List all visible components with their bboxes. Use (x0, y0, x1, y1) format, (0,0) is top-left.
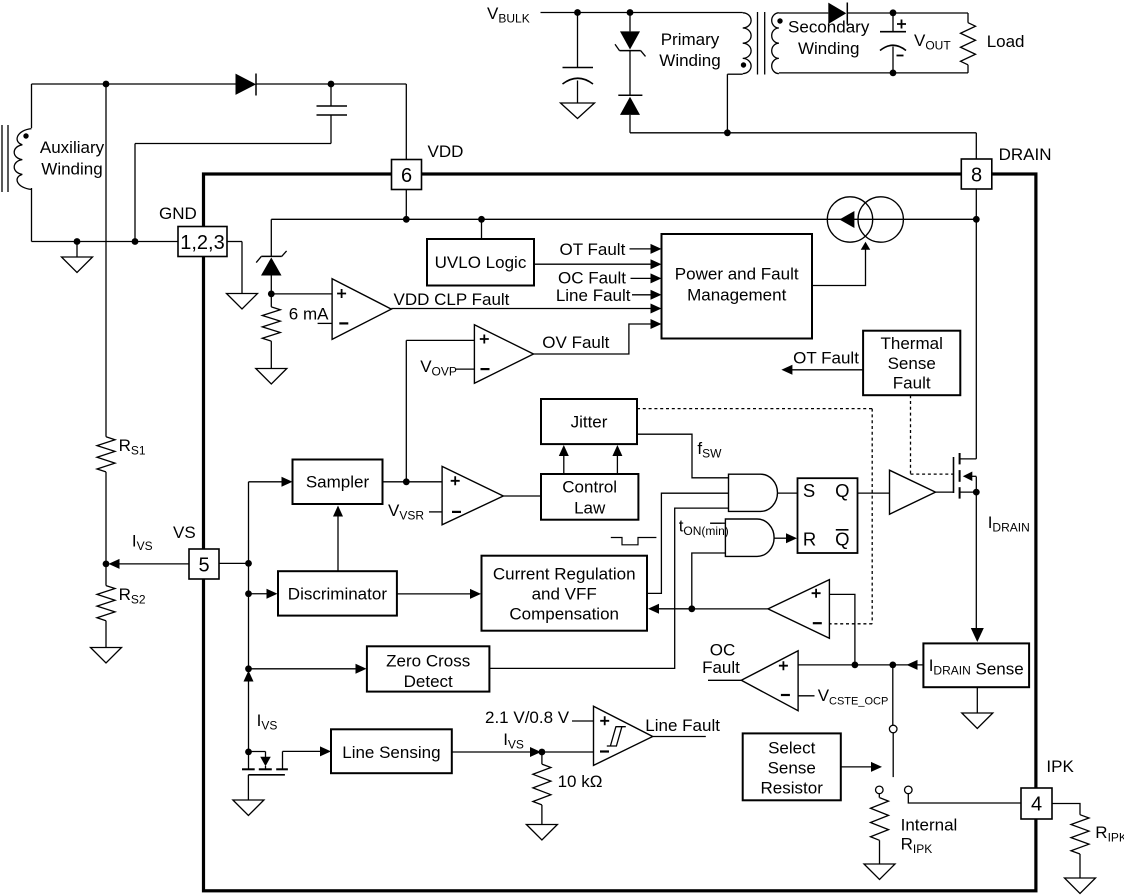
block I-DRAIN Sense (923, 643, 1029, 687)
svg-text:Internal: Internal (901, 816, 958, 835)
label V-BULK (487, 4, 530, 26)
svg-text:Q: Q (835, 528, 849, 549)
capacitor C-VDD (317, 106, 348, 115)
node bulk-cap junction (574, 9, 581, 16)
label GND (159, 204, 197, 223)
wire OC minus stub (798, 695, 814, 697)
wire DRAIN vertical (975, 189, 977, 632)
svg-text:5: 5 (198, 555, 209, 577)
wire secondary top to output diode (779, 12, 828, 14)
ground symbol (10k resistor) (526, 825, 557, 841)
wire OC plus input (798, 660, 923, 670)
auxiliary winding polarity dot (23, 133, 28, 138)
svg-text:Sense: Sense (888, 354, 936, 373)
diode D1 (VDD rectifier) (236, 74, 256, 96)
capacitor C-BULK (563, 13, 594, 104)
wire UVLO output to PFM (534, 263, 652, 265)
zener diode (VDD clamp) (256, 219, 286, 294)
svg-text:Law: Law (574, 499, 606, 518)
svg-text:VDD CLP Fault: VDD CLP Fault (394, 290, 510, 309)
wire PWM output to current regulation (648, 604, 768, 614)
block Power and Fault Management (662, 234, 813, 339)
wire VS node to discriminator (249, 589, 278, 599)
wire OC output stub (708, 679, 741, 681)
label I-VS (line sense out) (503, 730, 524, 752)
label R-S1 (119, 436, 146, 458)
svg-text:OV Fault: OV Fault (542, 333, 609, 352)
svg-text:6 mA: 6 mA (289, 305, 329, 324)
label Primary Winding (659, 30, 720, 70)
block Discriminator (278, 571, 397, 615)
svg-text:IPK: IPK (1046, 757, 1074, 776)
wire sampler node to OVP+ input (406, 340, 474, 481)
wire V-OVP stub (455, 368, 474, 370)
wire CLP- input stub (318, 322, 333, 324)
wire driver to gate (936, 491, 954, 493)
label VDD CLP Fault (394, 290, 510, 309)
svg-text:Jitter: Jitter (571, 413, 608, 432)
comparator U-LINE (hysteresis) (594, 706, 653, 765)
pin box 6 (VDD) (392, 160, 422, 190)
ground symbol (bulk cap) (561, 103, 595, 119)
power MOSFET Q1 (954, 453, 977, 499)
svg-text:and VFF: and VFF (532, 585, 597, 604)
svg-text:Winding: Winding (798, 39, 859, 58)
transformer core (758, 12, 765, 75)
svg-text:S: S (803, 480, 815, 501)
svg-text:DRAIN: DRAIN (999, 145, 1052, 164)
wire IPK pin to external resistor (1052, 804, 1080, 815)
wire Line Fault output (653, 736, 706, 738)
label Auxiliary Winding (40, 138, 105, 179)
wire VDD CLP Fault output (391, 308, 651, 310)
wire VS pin to divider (109, 559, 190, 569)
svg-text:8: 8 (971, 165, 982, 187)
node PWM-AND2 junction (688, 605, 695, 612)
wire current regulation to AND1 (647, 493, 729, 593)
node bulk-TVS junction (627, 9, 634, 16)
AND gate G1 (729, 474, 778, 511)
wire JFET to Line Sensing arrow (320, 746, 331, 756)
wire VS pin to internal node (219, 562, 249, 564)
svg-text:Winding: Winding (41, 160, 102, 179)
wire discriminator to current regulation (397, 589, 481, 599)
wire zener to CLP+ input (271, 293, 332, 295)
ground symbol (internal R-IPK) (864, 864, 895, 880)
AND gate G2 (725, 519, 774, 556)
label 10 kOhm (558, 772, 603, 791)
driver buffer U-DRV (890, 470, 936, 514)
arrow VDD CLP fault input (651, 304, 662, 314)
block Select Sense Resistor (743, 733, 841, 800)
svg-text:OT Fault: OT Fault (793, 349, 859, 368)
label t-ON(min) (679, 517, 729, 539)
wire VDD pin to internal rail (405, 190, 407, 220)
svg-text:Primary: Primary (661, 30, 720, 49)
svg-text:Sampler: Sampler (306, 473, 370, 492)
node VS-JFET junction (245, 749, 252, 756)
ground symbol (external R-IPK) (1065, 878, 1096, 894)
wire tONmin input to G2 (710, 522, 725, 524)
wire G2 output to latch R (774, 533, 797, 543)
ground symbol (I-DRAIN sense) (962, 687, 993, 728)
wire VS internal vertical (248, 482, 250, 752)
wire Line Fault arrow (632, 290, 662, 300)
node gnd-rail junction 1 (74, 238, 81, 245)
waveform pulse glyph (611, 538, 657, 545)
ground symbol (R-S2) (91, 648, 122, 664)
svg-text:Select: Select (768, 739, 816, 758)
block Control Law (541, 474, 638, 520)
label OT Fault output (793, 349, 859, 368)
svg-text:OC: OC (710, 641, 736, 660)
transformer core (auxiliary) (2, 125, 8, 192)
wire diode to VDD pin corner (256, 84, 406, 160)
wire sampler output (383, 481, 443, 483)
arrow I-VS current up (244, 671, 254, 682)
wire VS sense to sampler (249, 477, 293, 487)
label minus (Vout) (897, 55, 904, 57)
svg-text:VS: VS (173, 523, 196, 542)
svg-text:UVLO Logic: UVLO Logic (435, 253, 527, 272)
switch SW1 arm (892, 733, 894, 777)
resistor internal R-IPK (871, 794, 889, 864)
label plus (Vout) (897, 20, 906, 29)
svg-text:1,2,3: 1,2,3 (180, 232, 224, 254)
node VDD-cap junction (328, 81, 335, 88)
label OT Fault input (559, 240, 625, 259)
wire latch Q to driver (858, 492, 890, 494)
resistor external R-IPK (1071, 815, 1089, 878)
label I-DRAIN (988, 513, 1030, 535)
ground symbol (6mA resistor) (256, 369, 287, 385)
wire V-BULK to primary (541, 12, 743, 14)
label DRAIN (999, 145, 1052, 164)
diode D-clamp (618, 51, 642, 133)
svg-text:R: R (803, 528, 816, 549)
wire OT Fault output (781, 365, 863, 375)
label I-VS (internal) (257, 711, 278, 733)
svg-text:Line Sensing: Line Sensing (342, 743, 440, 762)
svg-text:GND: GND (159, 204, 197, 223)
wire line sensing output (452, 747, 594, 757)
wire rail to UVLO (481, 219, 483, 239)
wire VS node to ZCD arrow (249, 664, 367, 674)
dashed wire jitter to PWM minus (637, 409, 872, 624)
wire discriminator to sampler arrow (333, 506, 343, 572)
node line sense divider junction (539, 749, 546, 756)
wire ZCD output to G1 (489, 508, 728, 668)
label VS (173, 523, 196, 542)
svg-text:Compensation: Compensation (509, 605, 619, 624)
label OC Fault (702, 641, 740, 678)
svg-text:OT Fault: OT Fault (559, 240, 625, 259)
wire f-SW output (637, 434, 729, 478)
svg-text:Resistor: Resistor (761, 779, 824, 798)
label V-VSR (388, 501, 424, 523)
label IPK (1046, 757, 1074, 776)
wire cap stems and return to GND net (135, 84, 331, 242)
ground symbol (aux winding) (62, 242, 93, 273)
svg-text:Auxiliary: Auxiliary (40, 138, 105, 157)
svg-text:Winding: Winding (659, 51, 720, 70)
comparator U-CLP (VDD clamp) (332, 279, 391, 340)
svg-text:Fault: Fault (702, 658, 740, 677)
wire V-VSR stub (429, 511, 442, 513)
wire G1 output to latch S (778, 492, 798, 494)
svg-text:4: 4 (1031, 794, 1042, 816)
svg-text:Discriminator: Discriminator (288, 585, 388, 604)
label Line Fault output (645, 716, 720, 735)
label f-SW (697, 439, 722, 461)
label OV Fault (542, 333, 609, 352)
JFET current sense Q2 (242, 751, 320, 800)
wire OT Fault arrow (630, 244, 662, 254)
TVS zener clamp (615, 13, 646, 57)
primary winding L-P (727, 13, 751, 133)
node rail-DRAIN junction (973, 216, 980, 223)
capacitor C-OUT (880, 13, 906, 73)
secondary winding L-S (772, 13, 779, 74)
node rail-VDD junction (403, 216, 410, 223)
svg-text:Power and Fault: Power and Fault (675, 265, 799, 284)
node zener-resistor junction (268, 291, 275, 298)
svg-text:Q: Q (835, 480, 849, 501)
secondary polarity dot (777, 18, 782, 23)
wire aux winding top to diode (32, 84, 237, 128)
wire primary to DRAIN pin (975, 133, 977, 159)
node OC-switch junction (889, 662, 896, 669)
wire control law to jitter arrows (559, 445, 623, 474)
resistor R-S2 (97, 564, 115, 648)
label R-IPK (1095, 823, 1124, 845)
svg-text:OC Fault: OC Fault (558, 269, 626, 288)
node aux-top junction (103, 81, 110, 88)
svg-text:Line Fault: Line Fault (556, 286, 631, 305)
wire select to switch arrow (841, 762, 882, 772)
block Jitter (541, 399, 637, 444)
diode D-OUT (828, 3, 847, 25)
node Vout-cap junction (890, 9, 897, 16)
resistor 6mA bias (262, 294, 280, 369)
arrow OV fault input (651, 319, 662, 329)
svg-text:Current Regulation: Current Regulation (493, 565, 636, 584)
pin box 5 (VS) (189, 549, 219, 579)
label V-CSTE-OCP (818, 686, 889, 708)
svg-text:2.1 V/0.8 V: 2.1 V/0.8 V (485, 708, 570, 727)
label Internal R-IPK (901, 816, 958, 857)
label OC Fault input (558, 269, 626, 288)
switch SW1 contact external (905, 786, 913, 794)
comparator U-OC (741, 651, 798, 711)
label VDD (428, 142, 464, 161)
switch SW1 common contact (889, 725, 897, 733)
switch SW1 contact internal (876, 786, 884, 794)
label V-OVP (420, 357, 457, 379)
resistor R-Load (961, 13, 976, 73)
label I-VS (divider) (132, 532, 153, 554)
latch SR (798, 478, 858, 553)
wire OC node to switch (892, 665, 894, 725)
ground symbol (JFET gate) (233, 800, 264, 816)
label Secondary Winding (788, 18, 870, 59)
node OC-PWM junction (852, 662, 859, 669)
node VS divider junction (103, 561, 110, 568)
wire GND pin to ground (227, 242, 242, 294)
current source CS1 (startup) (827, 197, 903, 242)
comparator U-OVP (474, 325, 533, 384)
wire switch to IPK pin (908, 794, 1021, 803)
wire internal VDD rail (271, 218, 976, 220)
block Current Regulation and VFF Compensation (482, 556, 648, 631)
node sampler output junction (403, 478, 410, 485)
label threshold 2.1V/0.8V (485, 708, 570, 727)
dashed wire thermal fault to gate (911, 395, 954, 474)
comparator U-EA (VS regulation) (442, 466, 503, 524)
svg-text:Control: Control (562, 478, 617, 497)
node VS-ZCD junction (245, 665, 252, 672)
pin box 8 (DRAIN) (961, 159, 992, 189)
block Zero Cross Detect (367, 646, 490, 691)
svg-text:Detect: Detect (404, 672, 453, 691)
label Line Fault input (556, 286, 631, 305)
svg-text:Line Fault: Line Fault (645, 716, 720, 735)
wire G2 lower input from PWM (692, 553, 726, 609)
wire PFM to current source (812, 242, 870, 286)
auxiliary winding L-AUX (14, 129, 31, 190)
block Line Sensing (331, 729, 452, 773)
wire secondary bottom rail (779, 72, 968, 74)
node VS-discriminator junction (245, 590, 252, 597)
hysteresis glyph (607, 727, 626, 746)
wire aux winding bottom rail (32, 188, 179, 242)
label Load (987, 32, 1025, 51)
wire drain to sense arrow (971, 628, 984, 642)
pin box 1,2,3 (GND) (178, 227, 227, 257)
node primary-drain junction (724, 129, 731, 136)
wire EA output to Control Law (503, 495, 541, 497)
resistor 10k (533, 752, 551, 825)
svg-text:6: 6 (401, 165, 412, 187)
node VS internal junction (245, 560, 252, 567)
IC boundary box (204, 174, 1036, 891)
svg-text:Sense: Sense (768, 759, 816, 778)
ground symbol (GND pin) (227, 294, 258, 310)
svg-text:Thermal: Thermal (881, 334, 943, 353)
wire PWM plus input (829, 594, 855, 665)
comparator U-PWM (current sense) (768, 580, 829, 639)
svg-text:Zero Cross: Zero Cross (386, 652, 470, 671)
resistor R-S1 (97, 84, 115, 564)
node MOSFET source junction (973, 489, 980, 496)
svg-text:Load: Load (987, 32, 1025, 51)
primary polarity dot (741, 62, 746, 67)
svg-text:VDD: VDD (428, 142, 464, 161)
wire clamp to primary bottom (630, 132, 976, 134)
label V-OUT (914, 31, 951, 53)
block UVLO Logic (427, 239, 534, 286)
node rail-UVLO junction (478, 216, 485, 223)
wire threshold stub (572, 720, 594, 722)
block Sampler (293, 460, 383, 505)
arrow UVLO fault input (651, 259, 662, 269)
pin box 4 (IPK) (1021, 788, 1052, 819)
node gnd-rail junction 2 (132, 238, 139, 245)
label 6 mA (289, 305, 329, 324)
block Thermal Sense Fault (863, 331, 960, 396)
wire OV Fault to PFM (534, 324, 652, 354)
wire OC Fault arrow (631, 273, 662, 283)
label R-S2 (119, 585, 146, 607)
wire output node (847, 12, 968, 14)
svg-text:10 kΩ: 10 kΩ (558, 772, 603, 791)
svg-text:Fault: Fault (893, 374, 931, 393)
node Vout-bottom junction (890, 70, 897, 77)
svg-text:Management: Management (687, 286, 787, 305)
